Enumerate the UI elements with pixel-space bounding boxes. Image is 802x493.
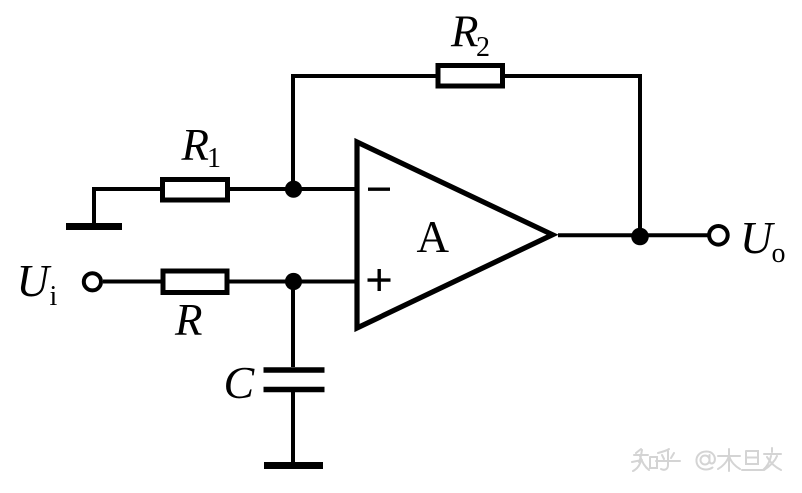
svg-text:U: U — [740, 213, 775, 263]
watermark — [632, 448, 781, 471]
svg-text:A: A — [417, 212, 450, 262]
wire — [638, 74, 642, 236]
wire — [291, 282, 295, 368]
svg-text:R: R — [450, 7, 479, 57]
resistor R2 — [438, 66, 503, 87]
wire — [103, 280, 163, 284]
wire — [94, 187, 163, 191]
svg-text:o: o — [772, 238, 786, 269]
wire — [227, 280, 356, 284]
wire — [291, 76, 295, 189]
svg-text:R: R — [174, 295, 203, 345]
node inverting input — [285, 181, 302, 198]
node output — [631, 228, 649, 246]
svg-text:1: 1 — [207, 143, 221, 174]
svg-text:C: C — [224, 357, 256, 408]
op-amp minus input — [368, 187, 390, 190]
capacitor C — [264, 370, 325, 390]
op-amp plus input — [368, 269, 391, 291]
op-amp A — [357, 142, 553, 328]
resistor R — [163, 271, 227, 293]
terminal Ui — [84, 273, 101, 290]
svg-text:2: 2 — [476, 32, 490, 63]
wire — [291, 392, 295, 462]
wire — [227, 187, 356, 191]
wire — [291, 74, 640, 78]
ground — [264, 462, 323, 469]
node noninverting input — [285, 273, 302, 290]
svg-text:i: i — [50, 281, 58, 312]
svg-text:U: U — [17, 256, 52, 306]
ground — [66, 223, 122, 230]
wire — [92, 187, 96, 226]
resistor R1 — [163, 180, 228, 201]
svg-text:R: R — [181, 120, 210, 170]
wire — [558, 233, 708, 237]
terminal Uo — [709, 226, 728, 245]
